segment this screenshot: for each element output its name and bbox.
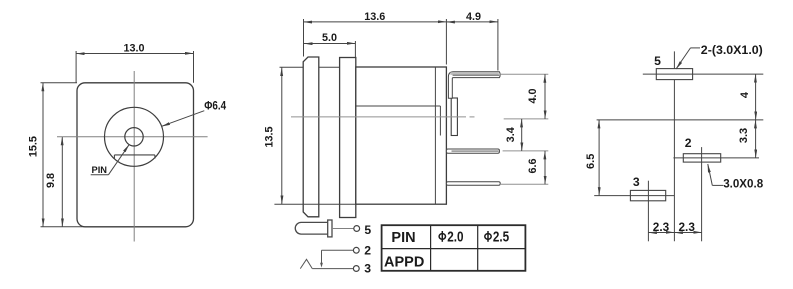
svg-text:2: 2	[364, 244, 371, 258]
extension pin 3 level	[501, 183, 548, 185]
extension center level	[504, 118, 549, 120]
svg-text:4: 4	[739, 91, 751, 98]
extension pin 5 level	[501, 73, 548, 75]
svg-text:5: 5	[654, 54, 661, 68]
body inner vertical 2	[439, 106, 441, 136]
dimension 6.5	[598, 120, 600, 196]
front face outline	[77, 83, 194, 227]
svg-text:4.9: 4.9	[466, 11, 481, 23]
dimension 13.6	[304, 19, 447, 65]
svg-text:3.0X0.8: 3.0X0.8	[723, 178, 764, 191]
nut plate	[340, 58, 356, 218]
centerline horizontal	[57, 136, 208, 138]
dimension 2.3 right	[674, 232, 702, 234]
terminal 2	[353, 247, 359, 253]
svg-text:13.0: 13.0	[123, 42, 144, 54]
pin 3 (bottom)	[446, 182, 500, 186]
svg-text:APPD: APPD	[384, 255, 424, 271]
wire pin 3	[312, 268, 353, 270]
centerline vertical	[133, 71, 135, 242]
pad 5	[656, 69, 692, 80]
dimension 4.9	[446, 19, 498, 71]
svg-text:2-(3.0X1.0): 2-(3.0X1.0)	[701, 43, 763, 57]
svg-text:13.6: 13.6	[364, 11, 385, 23]
svg-text:2.0: 2.0	[447, 230, 463, 246]
centerline	[291, 116, 466, 118]
dimension 4.0	[544, 74, 546, 119]
dimension 2.3 left	[648, 232, 674, 234]
svg-text:5: 5	[364, 223, 371, 237]
wire pin 5	[332, 228, 354, 230]
dimension 3.3	[755, 120, 757, 158]
svg-text:6.5: 6.5	[585, 154, 597, 169]
svg-text:2: 2	[685, 136, 692, 150]
body outline	[356, 67, 447, 204]
svg-text:6.6: 6.6	[527, 158, 539, 173]
center vertical line	[673, 51, 675, 241]
dimension 3.4	[521, 119, 523, 151]
table text dia 2.0	[439, 230, 463, 246]
svg-text:2.5: 2.5	[493, 230, 509, 246]
terminal 3	[353, 266, 359, 272]
pad 2	[683, 154, 720, 162]
terminal 5	[354, 226, 360, 232]
body internal line	[356, 105, 441, 107]
svg-text:9.8: 9.8	[45, 173, 57, 188]
svg-text:2.3: 2.3	[678, 220, 695, 234]
wire pin 2	[322, 249, 354, 251]
table text dia 2.5	[485, 230, 509, 246]
dimension 15.5	[41, 83, 91, 227]
svg-text:Φ6.4: Φ6.4	[204, 101, 226, 113]
dimension 6.6	[544, 151, 546, 184]
svg-text:3: 3	[364, 262, 371, 276]
extension pin 2 level	[503, 150, 549, 152]
body inner vertical 1	[434, 67, 436, 204]
svg-text:3.4: 3.4	[505, 127, 517, 142]
plug symbol barrel	[295, 222, 328, 234]
pin hole circle	[125, 128, 143, 146]
dimension 5.0	[304, 41, 355, 58]
svg-text:2.3: 2.3	[653, 220, 670, 234]
svg-text:13.5: 13.5	[264, 126, 276, 147]
pin 5 (top)	[448, 72, 500, 99]
spring contact	[300, 259, 312, 268]
pin 2 (middle)	[446, 149, 499, 153]
body bottom extension	[274, 203, 355, 205]
svg-text:5.0: 5.0	[322, 32, 337, 44]
dimension 4	[755, 74, 757, 120]
barrel circle	[105, 107, 164, 166]
svg-text:PIN: PIN	[391, 230, 415, 246]
flange plate	[303, 57, 319, 217]
side tab	[451, 98, 457, 136]
svg-text:4.0: 4.0	[527, 88, 539, 103]
dimension 13.5	[280, 67, 357, 204]
svg-text:PIN: PIN	[92, 165, 108, 175]
pad 3	[630, 190, 665, 200]
svg-text:3: 3	[633, 175, 640, 189]
leader 2-(3.0X1.0)	[676, 48, 700, 69]
leader dia 6.4	[162, 111, 205, 127]
svg-text:3.3: 3.3	[738, 128, 750, 143]
table grid	[382, 225, 526, 271]
plug symbol flange	[328, 220, 332, 237]
contact slot	[114, 155, 154, 159]
dimension 13.0	[76, 51, 193, 83]
svg-text:15.5: 15.5	[28, 136, 40, 157]
dimension 9.8	[61, 137, 63, 227]
reference line	[597, 119, 764, 121]
leader 3.0X0.8	[708, 164, 723, 185]
